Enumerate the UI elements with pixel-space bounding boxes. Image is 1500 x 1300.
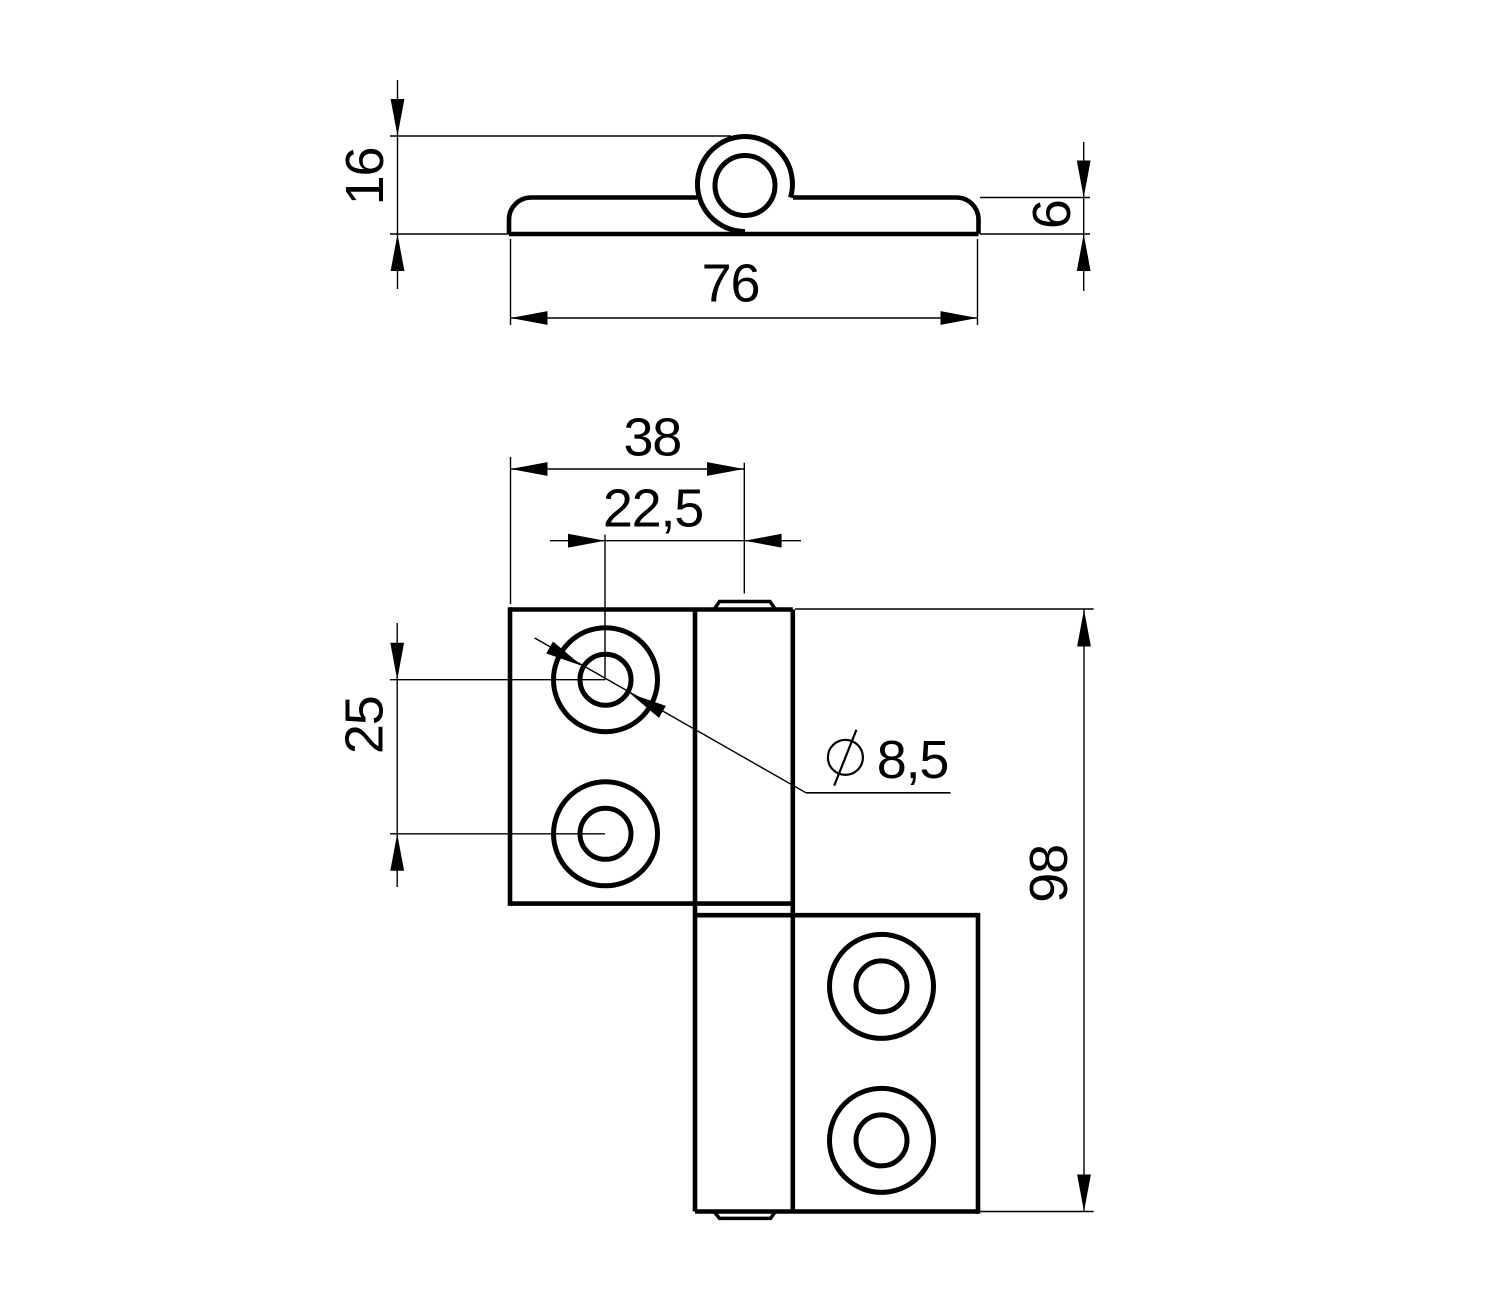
diameter symbol: [828, 730, 863, 786]
dim 76 left extension line: [510, 239, 512, 325]
svg-text:25: 25: [335, 696, 395, 754]
dim 76 right extension line: [977, 239, 979, 325]
hole 2 countersink: [554, 782, 658, 886]
dim 6 top extension line: [980, 197, 1090, 199]
dim 76 left arrow: [511, 311, 548, 325]
dim 98 bottom arrow: [1077, 1175, 1091, 1212]
svg-text:16: 16: [335, 148, 395, 206]
dim 25 bottom arrow: [390, 834, 404, 871]
hole 4 countersink: [830, 1088, 934, 1192]
dim 38 dimension line: [511, 468, 745, 470]
knuckle outer curl arc: [697, 137, 792, 232]
hole 1 bore: [580, 654, 631, 705]
leader landing line: [806, 792, 951, 794]
hole 4 bore: [856, 1115, 907, 1166]
svg-text:22,5: 22,5: [603, 479, 703, 539]
dim 6 bottom extension line: [980, 233, 1090, 235]
left leaf left edge: [508, 607, 513, 906]
hole 2 bore: [580, 808, 631, 859]
pin head top: [714, 602, 776, 610]
svg-text:98: 98: [1019, 845, 1079, 903]
svg-text:6: 6: [1022, 200, 1082, 229]
hinge leaf bar top edge right segment + right end: [793, 198, 979, 235]
dim 16 bottom extension line: [390, 233, 509, 235]
dim 25 top extension line (hole 1 centerline): [390, 679, 605, 681]
hole 1 vertical centerline: [604, 535, 606, 680]
dim 76 dimension line: [511, 317, 978, 319]
knuckle strip right edge: [790, 610, 795, 1212]
dim 22,5 left arrow: [568, 534, 605, 548]
dim 22,5 dimension line: [550, 540, 801, 542]
dim 38 right arrow: [707, 462, 744, 476]
dim 16 top extension line: [390, 135, 731, 137]
pin head bottom: [714, 1212, 776, 1219]
dim 98 top arrow: [1077, 610, 1091, 647]
right leaf right edge: [976, 913, 981, 1214]
hole 3 bore: [856, 961, 907, 1012]
leader diagonal line: [535, 638, 806, 793]
hole 3 countersink: [830, 934, 934, 1038]
dim 38 left extension line: [510, 457, 512, 604]
svg-text:76: 76: [702, 254, 760, 314]
dim 16 top arrow: [391, 99, 405, 136]
dim 6 dimension line: [1083, 142, 1085, 291]
dim 25 bottom extension line (hole 2 centerline): [390, 833, 605, 835]
dim 76 right arrow: [941, 311, 978, 325]
svg-text:8,5: 8,5: [877, 730, 948, 790]
dim 6 bottom arrow: [1077, 234, 1091, 271]
knuckle strip left edge: [693, 610, 698, 1212]
svg-text:38: 38: [623, 407, 681, 467]
hinge leaf bar bottom edge: [509, 232, 979, 237]
left leaf bottom edge: [510, 901, 793, 906]
knuckle centerline: [743, 463, 745, 594]
dim 25 top arrow: [390, 643, 404, 680]
hole 1 countersink: [554, 628, 658, 732]
dim 6 top arrow: [1077, 161, 1091, 198]
leader arrow A (upper-left, points at bore): [546, 642, 582, 666]
bottom edge: [695, 1209, 978, 1214]
dim 16 bottom arrow: [391, 234, 405, 271]
lower knuckle / right leaf top edge: [695, 913, 978, 918]
leader arrow B (lower-right, points at bore): [630, 694, 666, 718]
hinge leaf bar left end + top edge left segment: [509, 198, 697, 235]
dim 98 bottom extension line: [980, 1211, 1094, 1213]
left leaf top edge: [510, 607, 793, 612]
dim 22,5 right arrow: [745, 534, 782, 548]
dim 25 dimension line: [396, 623, 398, 887]
dim 38 left arrow: [511, 462, 548, 476]
dim 16 dimension line: [397, 80, 399, 289]
knuckle pin inner circle: [715, 156, 775, 216]
dim 98 top extension line: [795, 608, 1094, 610]
dim 98 dimension line: [1083, 610, 1085, 1212]
